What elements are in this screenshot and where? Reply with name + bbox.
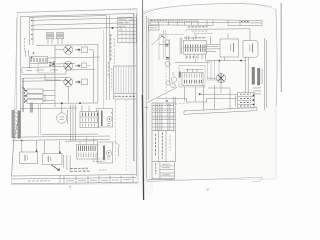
bus wire xyxy=(42,102,98,104)
relay block A xyxy=(30,57,48,64)
relay block B xyxy=(22,67,66,75)
wire risers center xyxy=(20,105,78,142)
dashed enclosure xyxy=(15,108,17,140)
vertical title text xyxy=(110,34,112,61)
wire loop right xyxy=(88,44,98,103)
hatched mid table xyxy=(114,66,137,99)
lamp H2 xyxy=(64,61,87,70)
revision table xyxy=(150,19,262,26)
wires below xyxy=(64,155,70,171)
wire xyxy=(30,57,101,68)
connector bar top-left xyxy=(30,18,34,46)
book edge line far right xyxy=(280,3,282,92)
page top curl edge xyxy=(144,4,273,14)
label text left xyxy=(24,38,26,52)
component K1 xyxy=(47,33,54,45)
corner cell xyxy=(149,26,160,31)
box B2 xyxy=(43,141,62,165)
long bottom frame lines xyxy=(184,107,257,114)
page number left xyxy=(69,186,72,188)
left page paper xyxy=(11,9,138,185)
dashed enclosure right xyxy=(115,100,126,172)
gutter shading xyxy=(128,8,145,188)
wires above title block xyxy=(173,34,228,104)
stepped wire to X12 xyxy=(157,98,238,102)
left side components xyxy=(152,30,171,85)
lamp H1 xyxy=(55,45,88,54)
terminal block X11 xyxy=(171,60,210,88)
wire xyxy=(45,70,95,81)
hatched bars right xyxy=(252,67,263,94)
relay box KV1 xyxy=(98,109,113,128)
junction dot xyxy=(112,27,114,29)
title block grid xyxy=(152,103,175,131)
lower connector X12 xyxy=(236,93,255,109)
wire pair into relay A xyxy=(26,50,29,57)
page number right xyxy=(207,189,210,191)
title block tables top-right xyxy=(106,13,136,176)
left page drawing frame xyxy=(18,9,138,13)
contact ladder xyxy=(22,78,55,112)
bottom strip xyxy=(12,175,138,184)
page right edge xyxy=(276,9,277,106)
bus under boxes xyxy=(205,59,246,62)
gutter shadow edge xyxy=(141,0,143,95)
diode D1 xyxy=(50,61,54,67)
arrow lead xyxy=(51,165,59,171)
contactor PM circle xyxy=(57,103,68,124)
drawing frame left xyxy=(147,16,149,179)
relay box KV2 xyxy=(98,141,120,163)
component K2 xyxy=(57,33,64,45)
wire riser right xyxy=(103,30,105,108)
long bus wires xyxy=(12,134,110,140)
terminal block X3 xyxy=(80,105,99,128)
hatched connector bars xyxy=(12,103,34,139)
schematic enclosure xyxy=(159,34,184,60)
caption text xyxy=(92,160,104,162)
right page paper xyxy=(143,3,277,180)
dashed enclosure bottom xyxy=(166,58,190,105)
connector comb X5 xyxy=(65,136,98,160)
wire bus to title block xyxy=(30,16,133,30)
title block lower cells xyxy=(147,131,175,180)
lamp H3 xyxy=(64,78,88,104)
box U1 xyxy=(220,39,239,57)
terminal block X10 xyxy=(180,36,220,60)
frame right double line xyxy=(264,38,266,110)
box B1 xyxy=(20,140,38,164)
heading text xyxy=(186,27,250,34)
wires to lower connector xyxy=(185,87,238,102)
motor M1 xyxy=(207,61,226,93)
page bottom edge xyxy=(146,177,262,182)
box U2 xyxy=(243,29,258,57)
